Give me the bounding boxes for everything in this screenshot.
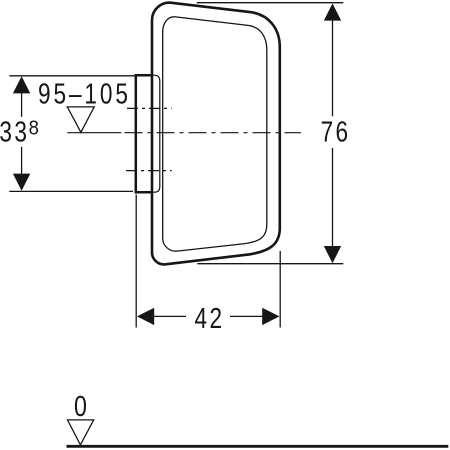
svg-text:8: 8 (29, 117, 39, 140)
dimension text 33 with superscript 8 (0, 115, 29, 148)
dimension 33.8 : top extension line (9, 75, 136, 77)
svg-text:33: 33 (0, 115, 29, 148)
svg-text:95–105: 95–105 (38, 77, 131, 110)
lower short center line on flange (126, 170, 172, 172)
datum triangle for 95-105 (67, 107, 94, 132)
inner face contour (163, 17, 267, 251)
dimension text 42 (195, 301, 225, 334)
main horizontal center line (67, 132, 121, 134)
datum triangle for floor level 0 (68, 420, 94, 445)
dimension 76 : top extension line (197, 2, 344, 4)
dimension 76 : down arrow (324, 246, 341, 263)
dimension text 76 (321, 115, 351, 148)
dimension 33.8 : bottom extension line (9, 190, 133, 192)
flange thin right edge with rounded corners (151, 75, 160, 192)
floor level text 0 (74, 389, 87, 422)
flange (wall bracket) thick outline (136, 75, 153, 192)
dimension 42 : right arrow (262, 308, 279, 325)
dimension 42 : left extension line (135, 195, 137, 328)
dimension 76 : dimension line (332, 20, 334, 117)
dimension 33.8 : dimension line (21, 93, 23, 117)
dimension 76 : bottom extension line (197, 263, 343, 265)
dimension 76 : up arrow (324, 3, 341, 20)
svg-text:0: 0 (74, 389, 87, 422)
upper short center line on flange (127, 107, 172, 109)
floor line (67, 445, 449, 448)
svg-text:76: 76 (321, 115, 351, 148)
dimension 42 : right extension line (279, 251, 281, 328)
outer contour of wall drive / cover plate (side view) (152, 3, 280, 265)
dimension 42 : left arrow (137, 308, 154, 325)
dimension 33.8 : down arrow (13, 174, 30, 191)
installation height text 95-105 (38, 77, 131, 110)
svg-text:42: 42 (195, 301, 225, 334)
dimension 42 : dimension line (154, 315, 187, 317)
dimension 33.8 : up arrow (13, 76, 30, 93)
